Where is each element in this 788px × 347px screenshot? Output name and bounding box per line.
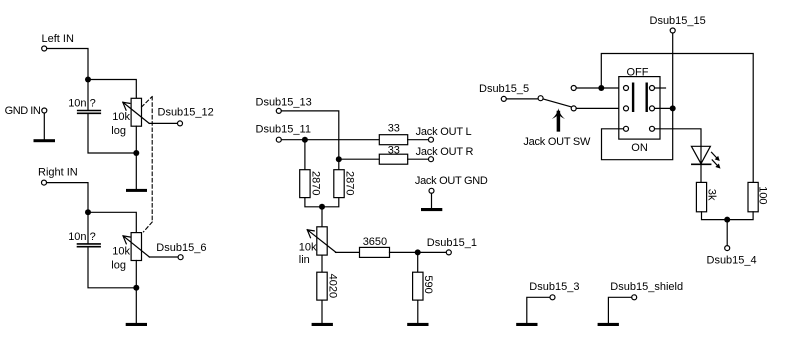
switch S1 pivot bbox=[538, 96, 543, 101]
ground (Dsub15_shield) bbox=[598, 323, 619, 326]
ground (R4020) bbox=[312, 323, 333, 326]
wire R4020 to ground bbox=[321, 300, 323, 323]
wire P3 wiper to resistor R3650 bbox=[336, 251, 360, 253]
wire node F to resistor R2870a bbox=[304, 140, 306, 170]
svg-text:Left IN: Left IN bbox=[42, 33, 74, 45]
wire pin R1 stub bbox=[655, 87, 666, 89]
switch contact bar left bbox=[632, 83, 634, 113]
wire node K to Dsub15_4 bbox=[726, 220, 728, 246]
switch contact bar right bbox=[646, 83, 648, 113]
switch pin L1 bbox=[624, 86, 629, 91]
wire Right IN to node C bbox=[47, 183, 88, 213]
capacitor C2 10n? bbox=[68, 231, 100, 247]
wire Left IN to node A bbox=[47, 49, 88, 80]
svg-text:Jack OUT SW: Jack OUT SW bbox=[523, 136, 591, 148]
wire contact bottom to switch box row2 bbox=[576, 107, 620, 109]
potentiometer P1 arrow bbox=[123, 102, 149, 123]
wire P2 bottom to ground bbox=[135, 261, 137, 324]
pin Dsub15_12 bbox=[158, 107, 214, 126]
resistor R100 100 bbox=[748, 182, 769, 211]
wire Dsub15_11 to resistor R33a bbox=[281, 139, 379, 141]
svg-text:Dsub15_3: Dsub15_3 bbox=[529, 281, 579, 293]
wire C1 bottom to node B bbox=[88, 114, 136, 153]
node F junction bbox=[302, 137, 308, 143]
wire resistor bottoms to node K bbox=[702, 212, 754, 220]
ground (R590) bbox=[407, 323, 428, 326]
ground (GND IN) bbox=[34, 139, 56, 142]
switch S1 contact top bbox=[571, 86, 576, 91]
pin Dsub15_6 bbox=[156, 242, 206, 260]
node E junction bbox=[336, 156, 342, 162]
Jack OUT SW arrow bbox=[552, 108, 565, 130]
pin Dsub15_4 bbox=[707, 246, 757, 267]
wire P1 bottom to ground bbox=[135, 126, 137, 189]
wire node E to resistor R33b bbox=[339, 158, 380, 160]
svg-text:10n: 10n bbox=[68, 231, 86, 243]
svg-text:Dsub15_shield: Dsub15_shield bbox=[610, 281, 683, 293]
svg-text:?: ? bbox=[90, 231, 96, 243]
node J junction bbox=[670, 105, 676, 111]
switch pin R3 bbox=[650, 126, 655, 131]
port Right IN bbox=[38, 167, 78, 186]
wire R590 to ground bbox=[417, 300, 419, 323]
wire C2 bottom to node D bbox=[88, 248, 136, 288]
svg-text:590: 590 bbox=[422, 275, 434, 293]
node I junction bbox=[598, 85, 604, 91]
pin Jack OUT GND bbox=[415, 175, 488, 193]
wire P3 bottom to resistor R4020 bbox=[321, 255, 323, 272]
pin Dsub15_15 bbox=[650, 15, 706, 33]
ground (left channel) bbox=[126, 189, 147, 192]
pin Dsub15_5 bbox=[479, 83, 529, 102]
svg-text:3650: 3650 bbox=[363, 236, 387, 248]
resistor R3k 3k bbox=[696, 182, 717, 211]
ground (Jack OUT GND) bbox=[421, 208, 442, 211]
node B junction bbox=[133, 150, 139, 156]
resistor R2870b 2870 bbox=[334, 159, 356, 197]
wire P2 wiper to Dsub15_6 bbox=[149, 256, 178, 258]
ground (Dsub15_3) bbox=[516, 323, 537, 326]
wire GND IN to ground bbox=[43, 113, 45, 139]
svg-text:33: 33 bbox=[388, 144, 400, 156]
wire Dsub15_3 to ground bbox=[527, 297, 550, 323]
wire Jack OUT GND to ground bbox=[431, 193, 433, 208]
svg-text:3k: 3k bbox=[706, 189, 718, 201]
svg-text:Dsub15_6: Dsub15_6 bbox=[156, 242, 206, 254]
resistor R33a 33 bbox=[379, 122, 407, 144]
potentiometer P2 arrow bbox=[123, 236, 149, 257]
pin Dsub15_3 bbox=[529, 281, 579, 300]
switch pin R1 bbox=[650, 86, 655, 91]
switch S1 contact bottom bbox=[571, 106, 576, 111]
gang link dashed bbox=[142, 97, 153, 232]
wire node G to pot P3 bbox=[321, 207, 323, 227]
wire Dsub15_5 to switch pivot bbox=[506, 98, 538, 100]
wire pin R3 to LED bbox=[655, 129, 701, 183]
switch pin R2 bbox=[650, 106, 655, 111]
node C junction bbox=[85, 209, 91, 215]
resistor R2870a 2870 bbox=[300, 170, 322, 198]
svg-text:100: 100 bbox=[757, 186, 769, 204]
potentiometer P2 10k log body bbox=[131, 233, 141, 261]
node G junction bbox=[319, 204, 325, 210]
potentiometer P3 10k lin body bbox=[317, 227, 327, 255]
LED D1 bbox=[691, 146, 720, 168]
wire node C to pot P2 top bbox=[88, 212, 136, 232]
wire ON loop: pin L3 to node J bbox=[602, 108, 673, 159]
wire node H to resistor R590 bbox=[417, 252, 419, 272]
port Left IN bbox=[42, 33, 74, 51]
resistor R590 590 bbox=[413, 272, 435, 300]
svg-text:?: ? bbox=[90, 98, 96, 110]
svg-text:Dsub15_5: Dsub15_5 bbox=[479, 83, 529, 95]
capacitor C1 10n? bbox=[68, 98, 100, 114]
svg-text:2870: 2870 bbox=[344, 171, 356, 195]
svg-text:ON: ON bbox=[631, 142, 648, 154]
svg-text:Dsub15_15: Dsub15_15 bbox=[650, 15, 706, 27]
potentiometer P3 arrow bbox=[307, 230, 336, 253]
svg-text:Dsub15_4: Dsub15_4 bbox=[707, 254, 757, 266]
switch S1 lever bbox=[543, 99, 571, 107]
svg-text:OFF: OFF bbox=[627, 66, 649, 78]
svg-text:10k: 10k bbox=[299, 242, 317, 254]
node H junction bbox=[415, 249, 421, 255]
wire Dsub15_13 to node E bbox=[281, 111, 338, 159]
svg-text:log: log bbox=[111, 259, 126, 271]
pin Jack OUT R bbox=[416, 146, 474, 162]
svg-text:GND IN: GND IN bbox=[5, 105, 41, 117]
pin Jack OUT L bbox=[416, 126, 472, 142]
pin Dsub15_shield bbox=[610, 281, 683, 300]
pin Dsub15_1 bbox=[427, 237, 477, 255]
wire contact top to switch box row1 bbox=[576, 87, 620, 89]
wire node A to pot P1 top bbox=[88, 80, 136, 99]
wire Dsub15_15 down to node J bbox=[672, 33, 674, 108]
svg-text:Jack OUT R: Jack OUT R bbox=[416, 146, 474, 158]
wire node A to capacitor C1 bbox=[87, 80, 89, 110]
wire R3650 to Dsub15_1 bbox=[390, 251, 447, 253]
ground (right channel) bbox=[126, 323, 147, 326]
wire P1 wiper to Dsub15_12 bbox=[149, 122, 177, 124]
resistor R3650 3650 bbox=[360, 236, 390, 258]
svg-text:33: 33 bbox=[388, 122, 400, 134]
node D junction bbox=[133, 285, 139, 291]
resistor R33b 33 bbox=[379, 144, 407, 164]
wire R33a to Jack OUT L bbox=[408, 139, 429, 141]
svg-text:2870: 2870 bbox=[309, 171, 321, 195]
svg-text:4020: 4020 bbox=[326, 274, 338, 298]
pin Dsub15_11 bbox=[256, 123, 311, 142]
svg-text:10k: 10k bbox=[112, 246, 130, 258]
wire resistor bottoms to node G bbox=[305, 198, 339, 207]
wire Dsub15_shield to ground bbox=[608, 297, 631, 323]
svg-text:Dsub15_1: Dsub15_1 bbox=[427, 237, 477, 249]
node A junction bbox=[85, 77, 91, 83]
wire R33b to Jack OUT R bbox=[408, 158, 429, 160]
switch SW_DPDT box bbox=[619, 77, 660, 140]
svg-text:Dsub15_13: Dsub15_13 bbox=[256, 96, 312, 108]
resistor R4020 4020 bbox=[317, 272, 339, 300]
wire pin R2 to node J bbox=[655, 107, 673, 109]
svg-text:Jack OUT L: Jack OUT L bbox=[416, 126, 472, 138]
node K junction bbox=[724, 217, 730, 223]
wire node C to capacitor C2 bbox=[87, 212, 89, 243]
wire top rail bbox=[601, 54, 753, 183]
pin Dsub15_13 bbox=[256, 96, 312, 113]
svg-text:Right IN: Right IN bbox=[38, 167, 78, 179]
svg-text:lin: lin bbox=[299, 254, 310, 266]
svg-text:10k: 10k bbox=[112, 111, 130, 123]
port GND IN bbox=[5, 105, 47, 117]
svg-text:Jack OUT GND: Jack OUT GND bbox=[415, 175, 488, 187]
switch pin L2 bbox=[624, 106, 629, 111]
potentiometer P1 10k log body bbox=[131, 98, 141, 126]
svg-text:log: log bbox=[111, 125, 126, 137]
svg-text:10n: 10n bbox=[68, 98, 86, 110]
switch pin L3 bbox=[624, 126, 629, 131]
svg-text:Dsub15_11: Dsub15_11 bbox=[256, 123, 311, 135]
svg-text:Dsub15_12: Dsub15_12 bbox=[158, 107, 214, 119]
